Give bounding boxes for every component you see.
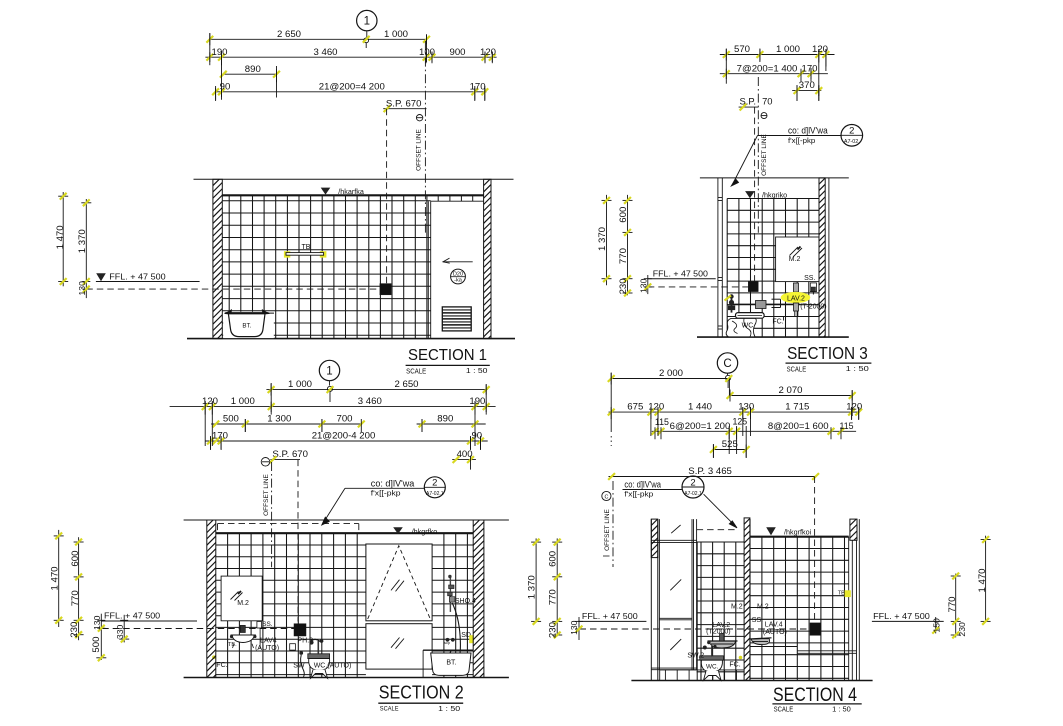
svg-text:1 : 50: 1 : 50	[846, 366, 869, 373]
svg-text:M.2: M.2	[237, 600, 249, 607]
svg-text:M.2: M.2	[757, 604, 769, 611]
svg-text:190: 190	[469, 396, 485, 407]
section 1 left dim 1370/130	[85, 199, 87, 298]
svg-text:3 460: 3 460	[358, 396, 382, 407]
svg-text:OFFSET LINE: OFFSET LINE	[415, 128, 422, 170]
svg-text:1 000: 1 000	[384, 29, 408, 40]
svg-text:120: 120	[480, 47, 496, 58]
section 1 grid bubble 1	[357, 10, 377, 30]
section 1 dim 890	[223, 73, 276, 75]
svg-text:2 650: 2 650	[277, 29, 301, 40]
section 4 dim 2070	[730, 395, 852, 397]
svg-text:2 000: 2 000	[659, 368, 683, 379]
svg-text:BT.: BT.	[242, 323, 251, 330]
section 4 dim extension lines	[610, 373, 612, 432]
svg-text:130: 130	[77, 281, 87, 296]
svg-text:FFL. + 47 500: FFL. + 47 500	[109, 272, 166, 281]
section 1 bathtub rim	[225, 312, 274, 314]
section 1 offset symbol	[416, 115, 422, 121]
section 4 grid bubble C	[717, 353, 737, 373]
svg-text:FFL. + 47 500: FFL. + 47 500	[582, 612, 638, 621]
section 4 right dim 150	[935, 617, 937, 633]
section 1 door tag D20	[451, 269, 466, 284]
section 2 ceiling line	[216, 532, 473, 534]
svg-text:2: 2	[690, 477, 695, 488]
svg-text:TB: TB	[302, 244, 311, 251]
svg-text:1 440: 1 440	[688, 402, 712, 413]
section 3 offset line	[757, 77, 759, 233]
svg-text:FFL. + 47 500: FFL. + 47 500	[653, 270, 709, 279]
svg-text:(T2000): (T2000)	[706, 629, 731, 636]
svg-text:1 : 50: 1 : 50	[438, 706, 460, 713]
section 1 towel bar highlight	[284, 251, 290, 257]
section 2 tile grid left	[227, 533, 229, 677]
section 3 bracket symbol	[772, 298, 781, 300]
svg-text:370: 370	[799, 80, 815, 91]
section 2 SS dispenser	[257, 622, 262, 629]
svg-text:FC.: FC.	[729, 662, 740, 669]
svg-text:(AUTO): (AUTO)	[255, 645, 279, 652]
section 3 dispenser	[810, 283, 816, 292]
section 2 dim row 1000/2650	[266, 389, 487, 391]
svg-text:500: 500	[91, 637, 102, 653]
svg-text:WC.: WC.	[706, 664, 719, 671]
section 2 dim 890	[417, 423, 486, 425]
section 3 dim 370	[792, 90, 821, 92]
svg-text:6@200=1 200: 6@200=1 200	[670, 421, 731, 432]
svg-text:230: 230	[618, 278, 629, 294]
svg-text:3 460: 3 460	[313, 47, 337, 58]
svg-text:FFL. + 47 500: FFL. + 47 500	[104, 612, 161, 621]
section 4 dim S.P. 3465	[609, 476, 816, 478]
section 2 soffit dashed box	[218, 523, 359, 525]
svg-text:770: 770	[548, 589, 559, 605]
svg-text:M.2: M.2	[731, 604, 743, 611]
section 2 grid bubble 1	[319, 360, 339, 380]
section 2 left dim 330	[123, 615, 125, 643]
svg-text:A7-02.1: A7-02.1	[426, 491, 444, 497]
section 2 PH.3 socket	[294, 624, 306, 636]
svg-text:230: 230	[548, 622, 559, 638]
section 3 valve highlight	[725, 296, 732, 301]
section 4 dashed soffit line	[697, 529, 737, 531]
section 1 grid line marker	[364, 38, 369, 43]
svg-text:1 : 50: 1 : 50	[466, 368, 488, 375]
svg-text:-ka: -ka	[454, 278, 463, 284]
svg-text:130: 130	[639, 278, 649, 293]
section 4 glass slashes	[671, 525, 680, 533]
section 3 lavatory faucet lower	[794, 303, 799, 311]
section 2 leader arrow	[323, 488, 345, 523]
section 4 floor line	[631, 680, 872, 682]
section 3 left dim 1370	[606, 195, 608, 285]
svg-text:co: d]lV'wa: co: d]lV'wa	[788, 126, 828, 136]
svg-text:scp: scp	[444, 640, 451, 645]
section 4 dim 2000	[611, 378, 729, 380]
svg-text:120: 120	[846, 402, 862, 413]
svg-text:1: 1	[364, 16, 370, 28]
section 4 tile grid left zone	[700, 542, 702, 681]
svg-text:8@200=1 600: 8@200=1 600	[768, 421, 829, 432]
svg-text:21@200-4 200: 21@200-4 200	[312, 431, 376, 442]
svg-text:130: 130	[92, 615, 102, 630]
section 2 FFL level line	[101, 620, 197, 622]
section 4 far left dim 1370	[535, 538, 537, 622]
svg-text:115: 115	[655, 417, 669, 427]
section 2 S.P. vertical line	[297, 460, 299, 622]
svg-text:700: 700	[336, 414, 352, 425]
section 3 mixer block	[756, 301, 767, 309]
svg-text:FC.: FC.	[216, 662, 227, 669]
svg-text:OFFSET LINE: OFFSET LINE	[761, 133, 768, 175]
svg-text:f'x[[-pkp: f'x[[-pkp	[624, 490, 653, 499]
section 2 dim extension lines	[270, 383, 272, 412]
svg-text:LAV4: LAV4	[260, 637, 277, 644]
section 1 door frame	[427, 201, 429, 338]
section 3 tile grid	[726, 199, 728, 338]
section 3 mirror M.2	[776, 237, 819, 282]
svg-text:1 000: 1 000	[288, 379, 312, 390]
section 2 shower hose	[450, 603, 460, 659]
section 2 left dim 130/500	[100, 614, 102, 660]
section 1 ceiling level triangle	[321, 188, 331, 195]
section 3 toilet	[736, 313, 765, 319]
svg-text:100: 100	[419, 47, 435, 58]
section 3 dim extension lines	[725, 49, 727, 79]
svg-text:525: 525	[722, 439, 738, 450]
svg-text:7@200=1 400: 7@200=1 400	[737, 63, 798, 74]
section 4 grid marker	[726, 375, 731, 380]
svg-text:LAV.4: LAV.4	[765, 622, 783, 629]
section 2 dim row 500/1300/700	[211, 423, 361, 425]
section 1 offset line	[424, 41, 426, 233]
svg-text:S.P. 3 465: S.P. 3 465	[688, 466, 732, 477]
section 3 room top line	[700, 177, 849, 179]
section 4 dim row 115/6@200/125/8@200/115	[652, 430, 856, 432]
svg-text:S.P. 670: S.P. 670	[272, 449, 308, 460]
svg-text:2: 2	[849, 126, 854, 137]
svg-text:1 715: 1 715	[785, 402, 809, 413]
svg-text:600: 600	[548, 551, 559, 567]
svg-text:S.P. 670: S.P. 670	[386, 98, 422, 109]
section 3 FFL text	[648, 278, 716, 280]
svg-text:FFL. + 47 500: FFL. + 47 500	[873, 612, 930, 621]
section 3 flush valve	[731, 296, 733, 313]
section 3 ceiling level triangle	[745, 191, 755, 198]
section 4 left FFL	[578, 620, 646, 622]
section 2 mirror M.2	[221, 576, 262, 621]
section 2 grid line marker	[327, 386, 332, 391]
svg-text:770: 770	[947, 596, 958, 612]
svg-text:900: 900	[449, 47, 465, 58]
section 2 bathtub	[423, 649, 473, 651]
section 2 shower set	[449, 577, 451, 612]
section 2 ceiling level triangle	[393, 527, 403, 534]
section 1 bathtub area mask	[223, 312, 274, 338]
svg-text:co: d]lV'wa: co: d]lV'wa	[371, 478, 415, 488]
section 4 detail tag 2/A7-02.1	[682, 476, 704, 498]
section 2 FC label	[212, 655, 216, 659]
svg-text:SECTION 4: SECTION 4	[773, 685, 857, 706]
svg-text:S.P.: S.P.	[740, 96, 757, 107]
svg-text:FC.: FC.	[772, 319, 783, 326]
svg-text:500: 500	[223, 414, 239, 425]
section 1 tile band over door	[431, 200, 484, 202]
section 1 dim row 90/21@200/170	[216, 91, 487, 93]
section 4 bottom tile strip	[659, 669, 744, 671]
section 3 detail tag 2/A7-02	[841, 125, 863, 147]
svg-text:1 370: 1 370	[77, 229, 88, 253]
svg-text:1 : 50: 1 : 50	[832, 707, 851, 714]
section 4 ceiling line right	[750, 536, 849, 538]
svg-text:OFFSET LINE: OFFSET LINE	[604, 508, 611, 550]
svg-text:C: C	[723, 358, 731, 370]
svg-text:1 470: 1 470	[50, 566, 61, 590]
section 2 toilet	[308, 654, 330, 659]
svg-text:f'x[[-pkp: f'x[[-pkp	[788, 136, 815, 145]
section 3 dim row 7@200/170	[720, 73, 828, 75]
section 2 left dim 600/770/230	[78, 537, 80, 640]
section 3 leader arrow	[732, 136, 757, 185]
section 2 soap dish	[446, 638, 450, 642]
svg-text:570: 570	[734, 44, 750, 55]
section 4 glass panels frame	[658, 519, 660, 670]
svg-text:130: 130	[569, 620, 579, 635]
section 1 louver vent	[442, 307, 471, 331]
svg-text:LAV.2: LAV.2	[787, 295, 805, 302]
svg-text:SS.: SS.	[262, 621, 273, 628]
section 4 far left dim 130	[578, 617, 580, 640]
svg-text:BT.: BT.	[446, 660, 456, 667]
svg-text:1 370: 1 370	[597, 227, 608, 251]
section 2 offset symbol	[261, 458, 270, 467]
svg-text:f'x[[-pkp: f'x[[-pkp	[371, 488, 401, 497]
section 2 left dim 1470	[58, 530, 60, 627]
section 3 lavatory faucet upper	[794, 283, 799, 292]
section 1 door swing arrow	[443, 261, 473, 263]
svg-text:675: 675	[627, 402, 643, 413]
section 1 FFL dashed level line	[86, 288, 380, 290]
svg-text:A7-02.1: A7-02.1	[684, 491, 702, 497]
svg-text:115: 115	[839, 421, 853, 431]
svg-text:1 470: 1 470	[55, 225, 66, 249]
svg-text:2: 2	[432, 478, 437, 489]
section 4 right lavatory	[751, 639, 769, 645]
section 1 dim row 190/3460/100/900/120	[205, 56, 496, 58]
section 4 counter lines	[751, 646, 798, 648]
svg-text:125: 125	[732, 417, 747, 427]
svg-text:OFFSET LINE: OFFSET LINE	[263, 473, 270, 515]
section 2 small box	[290, 644, 296, 650]
svg-text:1 000: 1 000	[776, 44, 800, 55]
section 3 supply pipe	[733, 303, 801, 305]
section 2 offset line	[271, 462, 273, 567]
section 1 S.P. line vertical	[386, 109, 388, 284]
svg-text:WC.: WC.	[742, 323, 756, 330]
svg-text:C: C	[604, 495, 608, 501]
svg-text:120: 120	[202, 396, 218, 407]
svg-text:SCALE: SCALE	[774, 705, 794, 714]
svg-text:SW.2: SW.2	[687, 653, 704, 660]
section 4 right FFL	[872, 620, 944, 622]
section 4 left partition	[650, 519, 652, 680]
section 4 glass panel rails	[651, 539, 696, 541]
svg-text:(AUTO): (AUTO)	[763, 629, 787, 636]
section 2 shower glass bottom panel	[366, 624, 432, 669]
svg-text:1: 1	[326, 366, 332, 378]
svg-text:SS.: SS.	[752, 617, 763, 624]
section 1 bathtub BT	[228, 314, 265, 337]
section 3 FFL dashed line	[648, 286, 749, 288]
section 2 room top line	[184, 519, 509, 521]
svg-text:SECTION 1: SECTION 1	[408, 347, 487, 364]
section 1 ceiling line	[222, 194, 483, 196]
section 1 dim S.P. 670	[383, 108, 426, 110]
section 4 right dim 770/230	[955, 574, 957, 638]
svg-text:/hkgrfko: /hkgrfko	[412, 527, 438, 536]
section 4 FFL dashed line	[580, 628, 811, 630]
section 1 room top line	[194, 178, 514, 180]
section 1 wall socket	[380, 284, 391, 295]
svg-text:TB.: TB.	[228, 642, 237, 648]
section 1 dim extension lines	[209, 33, 211, 62]
section 2 shower door swing dashed	[368, 546, 431, 619]
svg-text:2 650: 2 650	[394, 379, 418, 390]
section 3 LAV.2 highlight	[781, 292, 811, 303]
section 3 offset symbol	[761, 113, 767, 119]
section 4 far left dim 600/770/230	[556, 538, 558, 636]
section 4 dim 525	[713, 449, 746, 451]
section 4 ceiling level triangle	[766, 527, 776, 535]
section 3 left dim 600/770/230	[627, 195, 629, 295]
section 1 tile grid	[228, 195, 230, 338]
section 1 FFL level mark	[96, 273, 106, 281]
svg-text:A7-02.: A7-02.	[844, 139, 860, 145]
section 4 toilet front	[700, 656, 724, 660]
section 3 floor line	[697, 336, 849, 338]
svg-text:/hkarfka: /hkarfka	[338, 187, 364, 196]
svg-text:130: 130	[738, 402, 754, 413]
section 2 dim row 170/21@200/90	[205, 440, 488, 442]
svg-text:170: 170	[470, 81, 486, 92]
section 1 left dim 1470	[62, 192, 64, 286]
svg-text:21@200=4 200: 21@200=4 200	[319, 81, 385, 92]
svg-text:230: 230	[69, 622, 80, 638]
svg-text:SCALE: SCALE	[406, 367, 426, 375]
section 1 floor line	[187, 338, 515, 340]
svg-text:770: 770	[70, 590, 81, 606]
svg-text:SECTION 3: SECTION 3	[787, 343, 868, 363]
section 3 dim row 570/1000/120	[720, 54, 835, 56]
section 1 towel bar	[286, 253, 324, 256]
svg-text:170: 170	[801, 63, 817, 74]
section 3 left wall studs	[717, 178, 719, 337]
svg-text:600: 600	[618, 207, 629, 223]
section 2 shower glass top panel	[366, 544, 432, 621]
section 2 sprayer	[299, 651, 303, 655]
section 2 FFL dashed line	[102, 628, 294, 630]
svg-text:70: 70	[762, 96, 772, 107]
svg-text:890: 890	[245, 64, 261, 75]
svg-text:M.2: M.2	[789, 256, 801, 263]
section 4 dim row 675/120/1440/130/1715/120	[609, 411, 860, 413]
section 2 tile grid right	[443, 533, 445, 677]
svg-text:150: 150	[931, 618, 941, 633]
svg-text:1 300: 1 300	[267, 414, 291, 425]
svg-text:SECTION 2: SECTION 2	[379, 681, 464, 702]
section 4 offset symbol C	[602, 491, 611, 500]
section 1 dim row 2650/1000	[210, 38, 427, 40]
svg-text:230: 230	[957, 622, 967, 637]
svg-text:TB: TB	[838, 591, 845, 597]
section 2 detail tag 2/A7-02.1	[424, 477, 445, 498]
svg-text:170: 170	[212, 431, 228, 442]
svg-text:/hkgrfkoi: /hkgrfkoi	[784, 527, 812, 536]
section 3 S.P. vertical line	[754, 107, 756, 282]
svg-text:SS.: SS.	[804, 275, 815, 282]
svg-text:2 070: 2 070	[778, 385, 802, 396]
svg-text:890: 890	[437, 414, 453, 425]
section 2 dim row 120/1000/3460/190	[170, 406, 496, 408]
section 4 tile grid right zone	[761, 537, 763, 681]
section 4 wall socket	[810, 623, 821, 635]
section 2 lavatory	[240, 625, 245, 632]
section 3 wall socket	[748, 282, 758, 292]
section 3 dim S.P. 70	[739, 106, 759, 108]
section 3 left dim 130	[647, 275, 649, 294]
svg-text:330: 330	[115, 625, 125, 640]
section 2 floor line	[184, 677, 509, 679]
svg-text:1 470: 1 470	[977, 568, 988, 592]
section 4 leader arrow	[704, 494, 736, 527]
svg-text:WC.(AUTO): WC.(AUTO)	[314, 663, 352, 670]
svg-text:SCALE: SCALE	[380, 706, 399, 713]
section 4 right dim 1470	[985, 536, 987, 622]
svg-text:1 370: 1 370	[526, 575, 537, 599]
svg-text:770: 770	[618, 248, 629, 264]
section 4 left lavatory	[709, 641, 735, 648]
svg-text:190: 190	[211, 47, 227, 58]
svg-text:1 000: 1 000	[231, 396, 255, 407]
section 4 offset line	[612, 481, 614, 567]
svg-text:600: 600	[70, 551, 81, 567]
svg-text:/hkgriko: /hkgriko	[762, 190, 787, 199]
svg-text:SCALE: SCALE	[787, 365, 807, 374]
section 4 S.P. vertical line	[814, 477, 816, 623]
svg-text:co: d]lV'wa: co: d]lV'wa	[624, 480, 661, 490]
